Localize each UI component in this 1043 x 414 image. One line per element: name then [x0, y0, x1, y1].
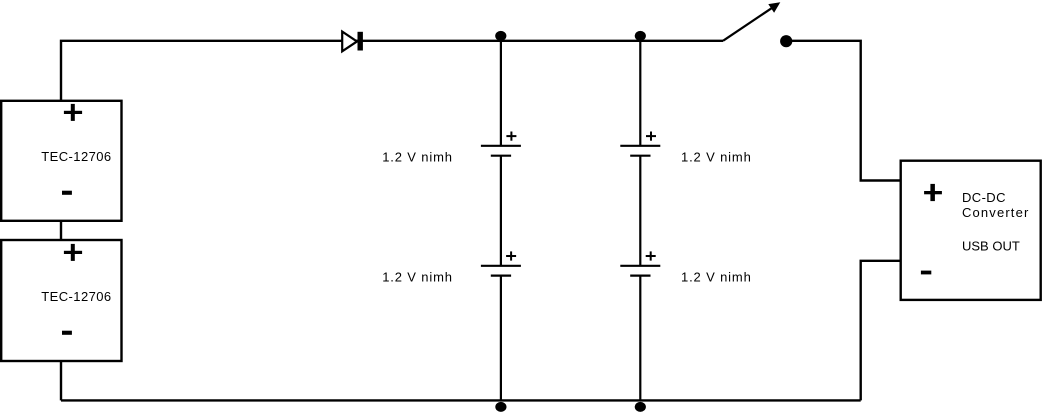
wire: battery branch 2 vertical column [639, 41, 641, 401]
TEC module U2 TEC-12706 (bottom) [1, 240, 121, 361]
wire: bottom rail [61, 399, 861, 401]
diode D1 [342, 32, 363, 52]
switch SW1 right contact dot [780, 35, 792, 47]
wire: switch contact to top-right corner down to converter input stub [786, 41, 901, 181]
TEC module U1 TEC-12706 (top) [1, 101, 121, 221]
battery B4 (branch 2, bottom) 1.2 V nimh [620, 251, 660, 275]
wire: TEC2 negative to bottom rail [60, 361, 62, 400]
wire: battery branch 1 vertical column [500, 41, 502, 401]
DC-DC converter module U3 with USB OUT [901, 161, 1041, 300]
junction node: top rail / branch 1 [495, 31, 506, 41]
battery B1 (branch 1, top) 1.2 V nimh [481, 132, 521, 156]
svg-text:1.2 V nimh: 1.2 V nimh [382, 150, 453, 165]
wire: TEC1 negative to TEC2 positive [60, 221, 62, 240]
svg-text:Converter: Converter [962, 205, 1029, 220]
wire: top rail from left corner to switch left contact [61, 41, 723, 101]
switch SW1 lever with arrowhead [723, 2, 780, 41]
svg-text:DC-DC: DC-DC [962, 190, 1006, 205]
svg-text:USB OUT: USB OUT [962, 239, 1020, 254]
svg-text:1.2 V nimh: 1.2 V nimh [681, 150, 752, 165]
svg-text:1.2 V nimh: 1.2 V nimh [382, 269, 453, 284]
junction node: top rail / branch 2 [635, 31, 646, 41]
junction node: bottom rail / branch 1 [495, 402, 506, 412]
wire: converter negative stub down to bottom rail [861, 261, 901, 401]
battery B2 (branch 1, bottom) 1.2 V nimh [481, 251, 521, 275]
svg-text:1.2 V nimh: 1.2 V nimh [681, 269, 752, 284]
svg-text:TEC-12706: TEC-12706 [41, 149, 111, 164]
svg-text:TEC-12706: TEC-12706 [41, 289, 111, 304]
junction node: bottom rail / branch 2 [635, 402, 646, 412]
battery B3 (branch 2, top) 1.2 V nimh [620, 132, 660, 156]
